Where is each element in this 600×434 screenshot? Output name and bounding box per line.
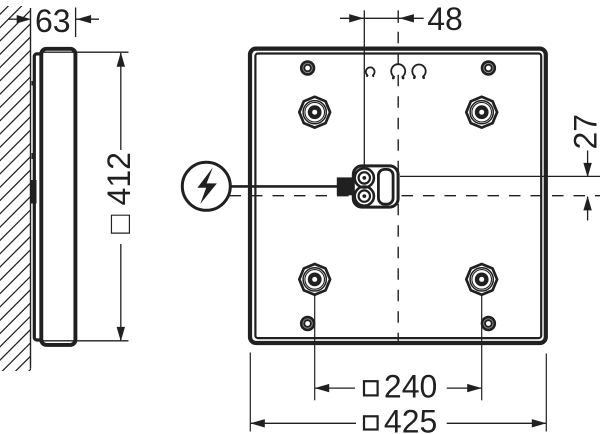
svg-text:240: 240 xyxy=(384,369,437,405)
svg-text:□ 412: □ 412 xyxy=(101,152,137,234)
svg-text:27: 27 xyxy=(567,114,600,150)
svg-text:48: 48 xyxy=(427,1,463,37)
svg-text:425: 425 xyxy=(384,403,437,434)
svg-text:63: 63 xyxy=(35,3,71,39)
